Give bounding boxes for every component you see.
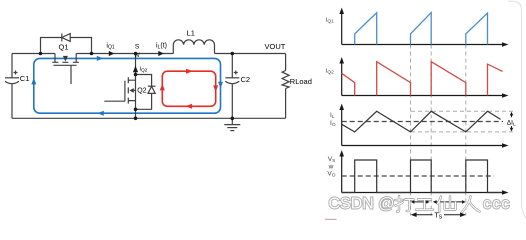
- dashed Vo average line: [342, 175, 494, 177]
- pink card edge: [325, 218, 337, 220]
- waveform IL: [342, 111, 501, 132]
- dashed Io average line: [342, 121, 503, 123]
- node Q2 top junction: [134, 73, 138, 77]
- wire bottom rail: [12, 117, 286, 119]
- red current loop 2: [162, 71, 215, 106]
- plot 3 axes IL: [342, 108, 503, 146]
- wire C2 top lead: [231, 54, 233, 78]
- svg-text:S: S: [135, 44, 140, 51]
- capacitor C1: [5, 71, 19, 84]
- svg-text:L1: L1: [187, 29, 195, 38]
- waveform iQ2: [342, 62, 503, 96]
- dashed peak line: [411, 110, 516, 112]
- wire left rail C1 bottom lead: [11, 85, 13, 119]
- node Q2 bottom junction: [134, 108, 138, 112]
- wire left rail C1 top lead: [11, 54, 13, 78]
- svg-text:Q2: Q2: [137, 87, 146, 94]
- svg-text:RLoad: RLoad: [290, 77, 312, 86]
- diode D1 body diode of Q1: [62, 34, 70, 42]
- wire Q2 diode branch: [136, 75, 152, 110]
- svg-text:iQ1: iQ1: [106, 43, 114, 51]
- wire diode branch: [41, 38, 92, 54]
- capacitor C2: [225, 71, 239, 84]
- junction dots: [39, 52, 234, 120]
- dashed valley line: [411, 131, 516, 133]
- plot 4 axes Vs: [342, 155, 503, 193]
- node diode right junction: [90, 52, 94, 56]
- node diode left junction: [39, 52, 43, 56]
- circuit wires: [12, 38, 286, 119]
- current arrow iQ1: [109, 51, 115, 56]
- svg-text:TS: TS: [435, 213, 443, 221]
- svg-text:ccc: ccc: [483, 195, 511, 212]
- node bottom rail junction: [134, 117, 138, 121]
- wire C2 bottom lead: [231, 85, 233, 119]
- svg-text:C1: C1: [20, 74, 30, 83]
- svg-text:VOUT: VOUT: [265, 42, 286, 51]
- wire top rail mid: [76, 53, 173, 55]
- wire top rail left: [12, 53, 55, 55]
- transistor Q1: [52, 54, 79, 85]
- svg-text:CSDN @: CSDN @: [329, 195, 395, 212]
- blue current loop 1: [34, 58, 221, 113]
- ground: [224, 118, 240, 130]
- dashed timing gridlines: [411, 45, 466, 216]
- node S junction: [134, 52, 138, 56]
- svg-text:w: w: [328, 164, 334, 171]
- watermark CSDN text: [329, 195, 511, 212]
- Ts period arrow row: [416, 214, 462, 216]
- waveform Vs square wave: [342, 160, 502, 193]
- plot 1 axes iQ1: [342, 12, 503, 45]
- faint page border: [508, 1, 526, 218]
- inductor L1: [173, 40, 214, 54]
- wire top rail right: [215, 53, 286, 55]
- svg-text:iL(t): iL(t): [156, 43, 167, 51]
- duty interval arrows row: [414, 201, 463, 203]
- wire right rail VOUT: [285, 54, 287, 119]
- delta IL annotation: [511, 115, 513, 128]
- resistor RLoad: [282, 71, 289, 89]
- plot 2 axes iQ2: [342, 62, 503, 96]
- node VOUT junction: [231, 52, 235, 56]
- diode D2 body diode of Q2: [148, 86, 156, 93]
- current arrow iQ2: [133, 66, 138, 73]
- svg-text:C2: C2: [241, 75, 251, 84]
- node ground junction: [231, 117, 235, 121]
- waveform iQ1: [355, 13, 488, 45]
- watermark chinese glyphs: [395, 196, 480, 212]
- wire switch node vertical: [135, 54, 137, 119]
- transistor Q2: [104, 77, 135, 103]
- current arrow iL: [158, 51, 164, 56]
- svg-text:Q1: Q1: [58, 43, 68, 52]
